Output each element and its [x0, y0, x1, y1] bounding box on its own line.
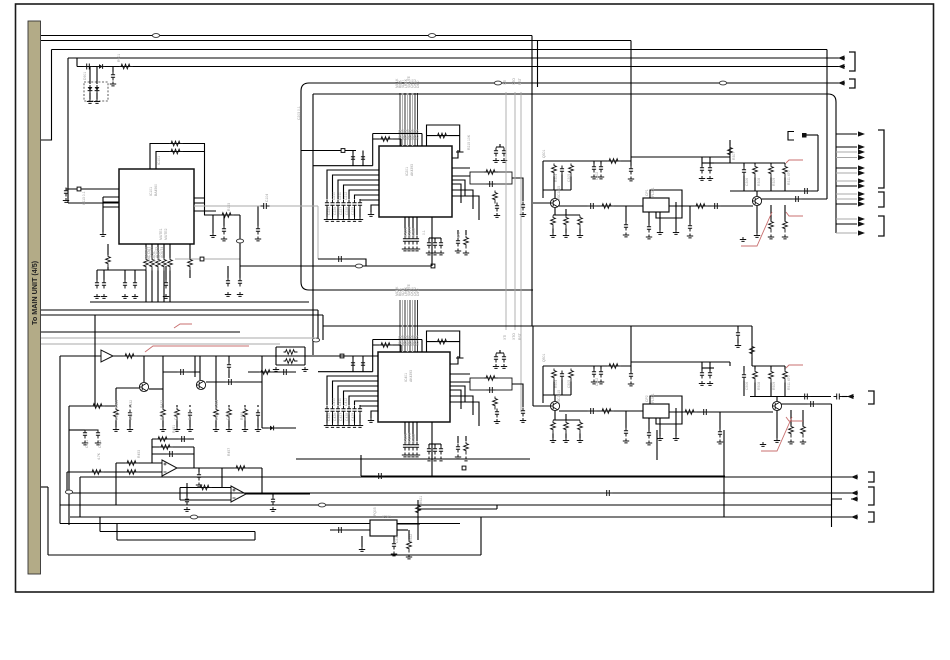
- svg-text:XTI: XTI: [503, 80, 507, 85]
- wire rail legs top: [744, 163, 785, 167]
- capacitor capacitor C122: [123, 280, 127, 289]
- capacitor capacitor C103: [222, 226, 226, 235]
- svg-text:C410: C410: [332, 398, 336, 406]
- wire bus D riser x=68: [67, 58, 69, 203]
- wire R119 lead a: [107, 244, 109, 255]
- wire IC201 top wire a: [373, 134, 422, 147]
- wire IC101 right pins: [194, 198, 216, 211]
- svg-text:C210: C210: [332, 192, 336, 200]
- capacitor capacitor C214: [347, 200, 351, 209]
- svg-text:VCOM: VCOM: [412, 228, 416, 238]
- wire IC201 top pin 2: [404, 93, 406, 146]
- resistor resistor R111: [150, 258, 155, 271]
- connector pin arrow PA9: [858, 196, 865, 201]
- node node NF1 (junction oval): [494, 81, 501, 85]
- wire IC101 right pin R103: [204, 214, 240, 216]
- connector pin arrow PA10: [858, 201, 865, 206]
- wire FL301 leg2: [659, 212, 661, 230]
- resistor resistor R433: [175, 408, 180, 421]
- wire U404 input a: [180, 487, 231, 489]
- wire (gray) stack 5: [836, 172, 857, 174]
- svg-text:C502: C502: [595, 378, 599, 386]
- wire Q402 collector column: [199, 356, 201, 380]
- resistor resistor R206: [464, 236, 469, 249]
- svg-text:R215 10K: R215 10K: [467, 134, 471, 150]
- wire IC401 top pin 2: [404, 300, 406, 352]
- ground ground G230: [402, 247, 408, 251]
- svg-text:RST: RST: [518, 333, 522, 340]
- ground ground G101b: [210, 233, 216, 237]
- ground ground G440: [426, 457, 432, 461]
- ground ground G123: [132, 294, 138, 298]
- resistor resistor R202: [436, 133, 450, 138]
- wire R522 lead: [408, 530, 410, 540]
- capacitor capacitor C240: [427, 240, 431, 249]
- annotation red line RB3: [786, 417, 803, 421]
- ground ground G102: [100, 232, 106, 236]
- wire C457 lead b: [228, 370, 230, 378]
- svg-text:AOUT4: AOUT4: [160, 247, 164, 258]
- resistor resistor R514: [683, 410, 697, 415]
- svg-text:C429: C429: [351, 413, 355, 421]
- wire stack 10: [836, 203, 857, 205]
- capacitor capacitor C216: [358, 200, 362, 209]
- capacitor capacitor C123: [133, 280, 137, 289]
- node node NL1 (junction oval): [65, 490, 72, 494]
- wire C420 top tie: [496, 350, 504, 353]
- ground ground G401: [735, 343, 741, 347]
- wire bl8 lead: [257, 405, 259, 407]
- capacitor capacitor C441: [433, 446, 437, 455]
- ground ground G212: [335, 217, 341, 221]
- resistor resistor R506: [600, 409, 614, 414]
- wire C212 gnd lead: [337, 209, 339, 218]
- wire connector stub lead: [806, 134, 818, 136]
- wire U404 output: [246, 493, 310, 495]
- wire IC401 top pin 4: [409, 300, 411, 352]
- wire link from bus: [631, 156, 702, 158]
- wire bl0 lead: [115, 405, 117, 407]
- wire (gray) bus x=521: [520, 92, 522, 412]
- wire C211 gnd lead: [332, 209, 334, 218]
- ground ground G421b: [82, 441, 88, 445]
- node node NB0 (junction oval): [236, 239, 243, 243]
- connector arrow OUT3: [851, 492, 858, 494]
- ground ground G223: [520, 212, 526, 216]
- resistor resistor R119: [106, 255, 111, 268]
- svg-text:IC101: IC101: [157, 156, 161, 165]
- resistor resistor R401: [379, 343, 393, 348]
- wire bus A vertical drop x=532: [531, 36, 533, 327]
- ground ground G220: [493, 158, 499, 162]
- annotation red line RC2: [174, 324, 192, 328]
- resistor resistor R501: [552, 369, 557, 382]
- resistor resistor R113: [162, 258, 167, 271]
- wire bl4 lead: [189, 405, 191, 407]
- wire mid bus y=326: [323, 325, 752, 327]
- wire IC101 bottom pins: [146, 244, 170, 258]
- wire C213 gnd lead: [343, 209, 345, 218]
- ground ground G422b: [95, 441, 101, 445]
- diode diode D401: [268, 427, 270, 429]
- wire IC401 top pin 6: [414, 300, 416, 352]
- wire IC401 left rail 2: [318, 371, 373, 373]
- wire IC201 right pin a: [452, 167, 470, 169]
- connector bracket CN-top1: [849, 52, 855, 71]
- resistor resistor R305: [578, 216, 583, 229]
- wire R119 lead b: [107, 267, 109, 270]
- wire IC401 right pin a: [450, 373, 470, 375]
- ground ground G420: [493, 364, 499, 368]
- ground ground G903: [94, 99, 100, 103]
- svg-text:XTI: XTI: [503, 335, 507, 340]
- capacitor capacitor C310: [708, 165, 712, 174]
- wire c241: [434, 238, 436, 240]
- ground ground G430: [402, 453, 408, 457]
- wire IC401 top pin 7: [417, 300, 419, 352]
- wire cap leads b: [702, 362, 710, 371]
- wire C215 gnd lead: [354, 209, 356, 218]
- resistor resistor R421: [123, 354, 137, 359]
- ground ground G466: [184, 507, 190, 511]
- wire Q501 collector: [554, 395, 556, 401]
- wire riser x=361: [360, 455, 362, 476]
- resistor resistor R314: [694, 204, 708, 209]
- ground ground G101c: [255, 237, 261, 241]
- wire Q501 out: [559, 410, 643, 412]
- wire bias legs b: [554, 380, 571, 396]
- wire c442: [440, 444, 442, 446]
- wire bl5 gnd lead: [215, 421, 217, 428]
- wire rail legs bottom b: [744, 381, 785, 397]
- svg-text:DIF0: DIF0: [416, 81, 420, 88]
- ground ground G240: [426, 251, 432, 255]
- capacitor capacitor C303: [599, 164, 603, 173]
- svg-text:R901: R901: [117, 54, 121, 62]
- connector arrow OUT2: [851, 476, 858, 478]
- wire C517 lead: [625, 411, 627, 428]
- wire bl4 gnd lead: [189, 419, 191, 428]
- wire Q301 out: [559, 205, 643, 207]
- wire FL301 leg1: [648, 212, 650, 225]
- wire out lead: [842, 396, 847, 398]
- resistor resistor R110: [144, 258, 149, 271]
- svg-text:2SC1815: 2SC1815: [557, 186, 561, 200]
- wire y=372 link: [248, 371, 296, 373]
- wire IC201 left pin 6: [360, 199, 379, 200]
- wire Q301 emitter: [554, 208, 556, 215]
- wire vertical x=204.5: [204, 144, 206, 216]
- capacitor capacitor C507: [802, 394, 811, 400]
- wire rail stub2: [702, 156, 730, 158]
- wire bus C: [52, 49, 828, 51]
- svg-text:To MAIN UNIT (4/5): To MAIN UNIT (4/5): [30, 260, 39, 325]
- resistor resistor R509: [769, 370, 774, 383]
- node pad TP1 (jumper pad): [431, 264, 435, 268]
- wire collector feed: [729, 140, 731, 163]
- wire vertical x=116: [115, 463, 117, 505]
- annotation red line RA3: [786, 212, 803, 216]
- node node NF2 (junction oval): [719, 81, 726, 85]
- connector arrow OUT4: [851, 498, 858, 500]
- ground ground G453: [174, 427, 180, 431]
- ground ground G422: [494, 419, 500, 423]
- capacitor capacitor C221: [502, 148, 506, 157]
- ground ground G124: [163, 294, 169, 298]
- svg-text:R511 470: R511 470: [787, 375, 791, 390]
- svg-text:RST: RST: [518, 78, 522, 85]
- wire rail 2b: [752, 365, 785, 367]
- transistor transistor Q401: [139, 382, 148, 391]
- ground ground G214: [346, 217, 352, 221]
- ground ground G421: [501, 364, 507, 368]
- wire Q401 emitter net: [149, 388, 163, 390]
- capacitor capacitor C519: [718, 429, 722, 438]
- ground ground G414: [346, 423, 352, 427]
- wire rail 2: [714, 162, 785, 164]
- wire rail stub: [702, 162, 714, 164]
- ground ground G129: [225, 292, 231, 296]
- ground ground G431: [406, 453, 412, 457]
- wire base feed vertical b: [542, 366, 544, 403]
- svg-text:DIF0: DIF0: [416, 289, 420, 296]
- svg-text:C305: C305: [567, 174, 571, 182]
- ground ground G510: [760, 442, 766, 446]
- ground ground G314: [623, 233, 629, 237]
- ground ground G456: [226, 427, 232, 431]
- wire line y=540: [117, 539, 255, 541]
- resistor resistor R442: [284, 359, 298, 364]
- resistor resistor R102: [169, 149, 183, 154]
- svg-text:R457: R457: [227, 448, 231, 456]
- wire R202 net: [427, 135, 460, 137]
- capacitor capacitor C416: [358, 406, 362, 415]
- svg-text:R521: R521: [419, 496, 423, 504]
- connector pin arrow PA2: [858, 149, 865, 154]
- svg-text:AOUT2: AOUT2: [150, 247, 154, 258]
- wire cap tie: [429, 237, 441, 239]
- wire bus B: [41, 40, 631, 42]
- resistor resistor R306: [600, 204, 614, 209]
- wire link y=372: [163, 371, 200, 373]
- connector pin arrow PA12: [858, 221, 865, 226]
- node node NA0 (junction oval): [152, 34, 159, 38]
- op-amp op-amp U404: [231, 486, 246, 502]
- capacitor capacitor C223: [521, 202, 525, 211]
- capacitor capacitor C124: [164, 280, 168, 289]
- connector pin arrow PA7: [858, 183, 865, 188]
- connector pin arrow PA5: [858, 170, 865, 175]
- wire RN201 out: [512, 178, 523, 201]
- svg-text:XTO: XTO: [512, 333, 516, 340]
- capacitor capacitor C304: [588, 203, 597, 209]
- svg-text:C113 0.1: C113 0.1: [82, 191, 86, 205]
- capacitor capacitor C103b: [256, 226, 260, 235]
- capacitor capacitor C413: [341, 406, 345, 415]
- capacitor capacitor C308: [793, 196, 802, 202]
- ground ground G501: [591, 380, 597, 384]
- connector pin arrow PA1: [858, 144, 865, 149]
- wire Q302 collector: [756, 191, 758, 196]
- capacitor capacitor C307: [802, 188, 811, 194]
- wire R401 net: [373, 345, 401, 352]
- wire (gray) mid y=344: [41, 343, 280, 345]
- wire cap leads 4: [353, 356, 363, 372]
- wire cr1: [103, 270, 105, 280]
- capacitor capacitor C212: [336, 200, 340, 209]
- svg-text:MUTE2: MUTE2: [164, 228, 168, 240]
- ground ground G242: [438, 251, 444, 255]
- wire vertical x=100 lower: [99, 517, 101, 532]
- wire IC401 right pins stair2: [450, 396, 479, 426]
- wire FL501 out: [669, 411, 773, 413]
- wire cap leads at 228/240: [228, 266, 240, 278]
- ground ground G411: [329, 423, 335, 427]
- wire drop x=631 to bottom stage: [630, 326, 632, 366]
- wire cap pair feed: [69, 429, 85, 431]
- svg-text:Q501: Q501: [542, 354, 546, 362]
- capacitor capacitor C219: [361, 154, 365, 163]
- svg-text:C306: C306: [745, 178, 749, 186]
- svg-text:C506: C506: [745, 382, 749, 390]
- wire IC201 left pin 5: [355, 195, 380, 199]
- wire IC201 bottom pin 2: [412, 217, 414, 235]
- capacitor capacitor C301: [560, 166, 564, 175]
- svg-text:C227: C227: [339, 207, 343, 215]
- wire loop L1 bottom: [301, 282, 533, 290]
- resistor resistor R452: [159, 445, 173, 450]
- ground ground G130: [237, 292, 243, 296]
- resistor resistor R405: [493, 397, 498, 410]
- ground ground G317: [673, 230, 679, 234]
- wire R110 to bus: [145, 271, 147, 303]
- capacitor capacitor C222: [495, 203, 499, 212]
- wire res legs b: [791, 410, 803, 426]
- wire gnd stub x=213: [212, 215, 214, 233]
- wire connector stub bracket: [788, 132, 794, 141]
- resistor resistor R512: [801, 425, 806, 438]
- connector bracket CN-top2: [849, 79, 855, 88]
- svg-text:C226: C226: [333, 207, 337, 215]
- wire IC101 left feed from riser: [68, 202, 119, 204]
- resistor resistor R437: [243, 408, 248, 421]
- svg-text:C462: C462: [98, 440, 102, 448]
- wire (gray) IC201 top pin 1: [402, 93, 404, 146]
- connector bracket CN503: [868, 487, 874, 505]
- annotation red line RB1: [786, 365, 803, 368]
- ground ground G517: [623, 439, 629, 443]
- wire to bias net: [194, 356, 196, 377]
- ground ground G101: [221, 237, 227, 241]
- wire vertical x=117 lower: [116, 524, 118, 541]
- wire C460 lead: [198, 468, 200, 472]
- ground ground G312: [707, 176, 713, 180]
- resistor resistor R313: [607, 159, 621, 164]
- wire mid bus y=310: [41, 309, 318, 311]
- svg-text:IC201: IC201: [405, 167, 409, 176]
- wire C410 gnd lead: [326, 415, 328, 424]
- svg-text:2SC1815: 2SC1815: [557, 390, 561, 404]
- diode diode D902b: [96, 85, 98, 87]
- capacitor capacitor C501: [560, 371, 564, 380]
- wire FL501 leg3: [675, 408, 677, 436]
- ground ground G455: [213, 427, 219, 431]
- ground ground G417: [368, 418, 374, 422]
- capacitor capacitor C511: [336, 527, 345, 533]
- resistor network RN401 loop: [470, 378, 512, 390]
- wire c242: [440, 238, 442, 240]
- wire IC401 left pin 3: [344, 391, 379, 405]
- wire bus C vertical drop x=827: [826, 50, 828, 200]
- wire base riser: [532, 326, 534, 406]
- wire emitter ties b: [553, 414, 580, 420]
- svg-text:C104: C104: [265, 194, 269, 202]
- capacitor capacitor C306: [742, 167, 746, 176]
- resistor resistor R511: [789, 425, 794, 438]
- capacitor capacitor C309: [700, 165, 704, 174]
- annotation red line RA1: [786, 160, 803, 163]
- wire IC401 left pin 1: [333, 381, 379, 405]
- wire cap tie 4: [429, 443, 441, 445]
- wire IC201 upper-left vertical: [372, 134, 374, 166]
- ground ground G233: [414, 247, 420, 251]
- transistor transistor Q302: [752, 196, 761, 205]
- ground ground G120: [94, 294, 100, 298]
- wire C415 gnd lead: [354, 415, 356, 424]
- ground ground G415: [351, 423, 357, 427]
- resistor resistor R430: [114, 408, 119, 421]
- svg-text:R307: R307: [732, 152, 736, 160]
- resistor resistor R521: [416, 504, 421, 517]
- ground ground G307: [754, 233, 760, 237]
- capacitor capacitor C120: [95, 280, 99, 289]
- svg-text:AOUT1: AOUT1: [145, 247, 149, 258]
- wire long line y=517: [70, 516, 851, 518]
- wire R112 to bus: [157, 271, 159, 303]
- svg-text:C428: C428: [345, 413, 349, 421]
- annotation red line RC1: [145, 346, 249, 352]
- ground ground G902: [87, 99, 93, 103]
- svg-text:C203 0.1: C203 0.1: [297, 106, 301, 120]
- svg-text:SDATA: SDATA: [416, 128, 420, 140]
- wire rail stub2 b: [702, 362, 730, 366]
- wire base line b: [533, 405, 550, 407]
- wire (gray) IC401 top pin 1: [402, 300, 404, 352]
- node node NL2 (junction oval): [318, 503, 325, 507]
- capacitor capacitor C313: [647, 224, 651, 233]
- wire IC401 bottom pin 0: [404, 422, 406, 441]
- wire C514 lead: [630, 366, 632, 371]
- ground ground G515: [699, 381, 705, 385]
- svg-text:C412: C412: [344, 398, 348, 406]
- connector pin arrow PA0: [858, 131, 865, 136]
- resistor resistor R304: [564, 216, 569, 229]
- wire vertical x=724: [723, 430, 725, 517]
- ground ground G441: [432, 457, 438, 461]
- wire node y=396 b: [750, 396, 831, 398]
- wire C457 lead: [228, 356, 230, 362]
- svg-text:IC401: IC401: [404, 373, 408, 382]
- ground ground G122: [122, 294, 128, 298]
- connector pin arrow PA13: [858, 230, 865, 235]
- wire Q502 collector: [776, 396, 778, 401]
- resistor resistor R403: [484, 376, 498, 381]
- wire U501 gnd lead: [361, 536, 363, 547]
- wire cr5b: [165, 266, 167, 270]
- transistor transistor Q502: [772, 401, 781, 410]
- wire RN401 out: [512, 384, 523, 407]
- wire mid bus y=315: [41, 314, 323, 316]
